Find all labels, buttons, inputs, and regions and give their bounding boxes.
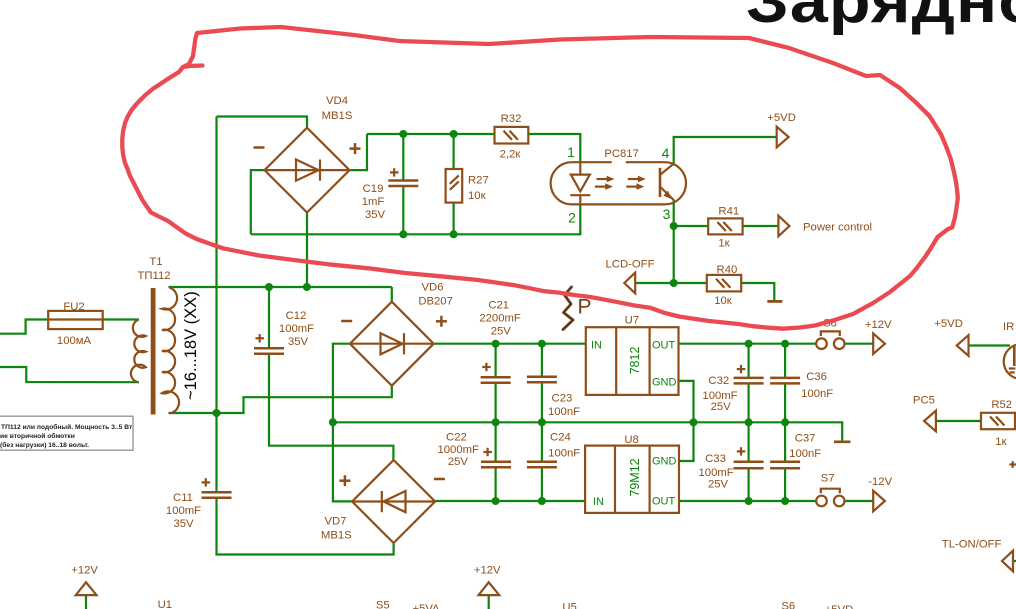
red hand-drawn ellipse annotation (122, 27, 958, 329)
wire: C21 top lead (495, 344, 497, 377)
port +5VD (top, output) (767, 112, 796, 147)
node: R27 top (450, 130, 458, 138)
wire: R40 to ground (741, 283, 774, 300)
wire: VD6 plus to U7 IN rail (434, 343, 586, 345)
svg-text:35V: 35V (288, 336, 309, 348)
wire: mains upper input to FU2 (0, 320, 49, 334)
port TL-ON/OFF (input, right edge) (942, 539, 1013, 572)
wire: GND rail (333, 422, 842, 440)
svg-text:ние вторичной обмотки: ние вторичной обмотки (0, 432, 75, 440)
wire: secondary top rail to VD6 top (169, 286, 392, 288)
svg-text:~16...18V (XX): ~16...18V (XX) (182, 291, 200, 400)
capacitor C23 (527, 377, 580, 418)
wire: VD4 minus corner to bottom rail (251, 170, 266, 234)
port Power control (output) (778, 216, 872, 237)
switch S7 (816, 473, 844, 507)
svg-text:IN: IN (593, 496, 604, 508)
port LCD-OFF (input, left) (606, 259, 655, 294)
bridge rectifier VD4 (254, 95, 361, 213)
wire: top rail y=134 to R32 (367, 133, 495, 135)
pencil mark P (hand annotation) (563, 287, 592, 330)
T1 secondary winding (162, 287, 179, 413)
resistor R41 (708, 206, 742, 250)
node: C37 top on GND rail (781, 418, 789, 426)
svg-text:C22: C22 (446, 431, 467, 443)
node: C19 top (399, 130, 407, 138)
regulator U8 79M12 (585, 434, 679, 513)
port +12V (bottom middle, up arrow) (474, 565, 501, 596)
wire: R32 to opto pin1 (528, 134, 580, 162)
svg-text:C21: C21 (488, 300, 509, 312)
svg-text:DB207: DB207 (418, 296, 453, 308)
svg-text:S5: S5 (376, 599, 390, 609)
wire: pin3 to R41 (674, 225, 709, 227)
capacitor C32 (702, 365, 763, 413)
wire: C11 top lead (215, 413, 217, 492)
wire: C36 leads (784, 344, 786, 378)
svg-text:79M12: 79M12 (628, 458, 642, 496)
svg-text:C37: C37 (795, 433, 816, 445)
port +12V (output) (865, 319, 892, 354)
capacitor C11 (166, 478, 232, 530)
svg-text:IN: IN (591, 339, 602, 351)
svg-text:4: 4 (662, 145, 670, 161)
bridge rectifier VD7 (321, 460, 445, 543)
wire: FU2 to transformer primary top (103, 318, 139, 320)
VD7 polarity marks (339, 479, 350, 482)
plus sign fragment at right edge (1010, 461, 1016, 468)
port -12V (output) (868, 476, 892, 511)
svg-text:C32: C32 (708, 375, 729, 387)
svg-text:100мА: 100мА (57, 335, 92, 347)
svg-text:1: 1 (567, 144, 575, 160)
svg-text:OUT: OUT (652, 496, 676, 508)
svg-text:+5VD: +5VD (767, 112, 796, 124)
svg-text:100mF: 100mF (279, 323, 314, 335)
node: opto pin3 / R41 (670, 222, 678, 230)
wire: opto bottom rail y=234.3 (251, 204, 581, 234)
capacitor C37 (770, 433, 821, 469)
wire: S8 to +12V port (844, 343, 873, 345)
VD4 polarity marks (254, 146, 265, 149)
node: C21 bottom (492, 418, 500, 426)
svg-text:1mF: 1mF (362, 196, 385, 208)
wire: VD4 AC vertical x=216.5 (215, 117, 217, 414)
svg-text:C19: C19 (363, 183, 384, 195)
wire: C24 top lead (541, 422, 543, 461)
wire: opto pin3 down (673, 200, 675, 284)
svg-text:VD4: VD4 (326, 95, 348, 107)
capacitor C24 (527, 431, 580, 467)
svg-text:+12V: +12V (474, 565, 501, 577)
svg-text:R32: R32 (501, 113, 522, 125)
svg-text:MB1S: MB1S (322, 110, 353, 122)
wire: +12V bottom-mid stub (488, 595, 490, 609)
wire: C11 bottom to VD7 bottom corner (217, 498, 394, 555)
svg-text:R27: R27 (468, 175, 489, 187)
node: C19 bottom (399, 230, 407, 238)
ground symbol near R40 (767, 300, 782, 303)
node: secondary bottom junction (213, 409, 221, 417)
svg-text:Power control: Power control (803, 222, 872, 234)
svg-text:LCD-OFF: LCD-OFF (606, 259, 655, 271)
wire: C12 top lead (268, 287, 270, 348)
regulator U7 7812 (586, 315, 679, 395)
svg-text:35V: 35V (173, 518, 194, 530)
resistor R52 (981, 399, 1015, 448)
wire: VD7 minus to U8 IN rail (435, 500, 585, 502)
svg-text:FU2: FU2 (63, 301, 84, 313)
svg-text:U1: U1 (158, 599, 172, 609)
wire: U7 GND lead (679, 381, 694, 422)
node: C37 bottom (781, 497, 789, 505)
svg-text:PC5: PC5 (913, 394, 935, 406)
wire: S7 to -12V port (844, 500, 873, 502)
node: C12/rail junction (265, 283, 273, 291)
svg-text:100mF: 100mF (702, 390, 737, 402)
svg-text:VD7: VD7 (325, 516, 347, 528)
transformer T1 (131, 256, 200, 415)
svg-text:IR: IR (1003, 321, 1014, 333)
svg-text:OUT: OUT (652, 339, 676, 351)
svg-text:ТП112: ТП112 (137, 270, 170, 282)
svg-text:S7: S7 (821, 473, 835, 485)
capacitor C22 (437, 431, 511, 468)
wire: mains lower input to primary bottom (0, 367, 139, 382)
node: C23 top (538, 340, 546, 348)
node: C22 bottom (492, 497, 500, 505)
resistor R27 (446, 169, 489, 203)
capacitor C33 (699, 447, 764, 491)
svg-text:C12: C12 (286, 310, 307, 322)
svg-text:C11: C11 (173, 492, 193, 504)
svg-text:GND: GND (652, 377, 677, 389)
wire: C22 bottom lead (495, 468, 497, 501)
svg-text:ТП112 или подобный. Мощность 3: ТП112 или подобный. Мощность 3..5 Вт (1, 423, 133, 431)
svg-text:100nF: 100nF (548, 406, 580, 418)
svg-text:U7: U7 (625, 315, 639, 327)
wire: VD6 minus corner down to VD7 plus corner (333, 344, 352, 502)
svg-text:25V: 25V (711, 401, 732, 413)
svg-text:MB1S: MB1S (321, 530, 352, 542)
wire: C37 leads (784, 422, 786, 461)
switch S8 (816, 317, 844, 349)
port +12V (bottom left, up arrow) (71, 564, 98, 595)
resistor R40 (707, 264, 741, 307)
wire: R52 right stub (1015, 420, 1016, 422)
svg-text:+12V: +12V (71, 564, 98, 576)
svg-text:U5: U5 (562, 602, 576, 609)
title: Зарядное (cut off at top) (746, 0, 1016, 35)
wire: C12 bottom to VD7 top corner (269, 354, 393, 460)
svg-text:GND: GND (652, 455, 677, 467)
node: C36 top (781, 340, 789, 348)
node: VD6 minus on GND rail (329, 418, 337, 426)
svg-text:C23: C23 (552, 392, 573, 404)
wire: opto pin4 to +5VD (674, 137, 777, 164)
ground symbol on GND rail (834, 440, 851, 443)
optocoupler U PC817 (551, 144, 686, 226)
svg-text:PC817: PC817 (604, 148, 639, 160)
svg-text:7812: 7812 (628, 347, 642, 375)
PC817 LED (579, 162, 581, 174)
node: C33 top on GND rail (745, 418, 753, 426)
node: C32 top (745, 340, 753, 348)
svg-text:+12V: +12V (865, 319, 892, 331)
node: pin3 / R40 (670, 279, 678, 287)
wire: C24 bottom lead (541, 468, 543, 501)
wire: LCD-OFF port to R40 (635, 282, 707, 284)
svg-text:25V: 25V (491, 326, 512, 338)
svg-text:VD6: VD6 (422, 282, 444, 294)
svg-text:-12V: -12V (868, 476, 892, 488)
svg-text:2200mF: 2200mF (479, 313, 521, 325)
svg-text:+5VD: +5VD (934, 318, 963, 330)
svg-text:3: 3 (663, 206, 671, 222)
svg-text:S6: S6 (781, 601, 795, 609)
wire: TL-ON/OFF stub (1013, 560, 1016, 562)
wire: C19 top lead (402, 134, 404, 180)
capacitor C19 (362, 168, 419, 221)
svg-text:100nF: 100nF (548, 448, 580, 460)
svg-text:C36: C36 (806, 371, 827, 383)
T1 primary winding (131, 320, 146, 383)
wire: secondary bottom to VD6 bottom corner (169, 384, 392, 413)
svg-text:100nF: 100nF (801, 388, 833, 400)
svg-text:TL-ON/OFF: TL-ON/OFF (942, 539, 1002, 551)
svg-text:35V: 35V (365, 209, 386, 221)
bottom edge labels U1 S5 +5VA U5 S6 +5VD (158, 599, 854, 609)
port PC5 (input, left) (913, 394, 936, 431)
wire: R27 top lead (453, 134, 455, 169)
svg-text:25V: 25V (448, 456, 469, 468)
PC817 light arrows (597, 178, 608, 180)
wire: +12V bottom-left stub (85, 595, 87, 609)
wire: C23 top lead (541, 344, 543, 376)
red pen hook (183, 66, 202, 68)
svg-text:R52: R52 (991, 399, 1012, 411)
VD6 polarity marks (341, 320, 352, 323)
svg-text:Зарядное: Зарядное (746, 0, 1016, 35)
wire: U8 OUT -12V rail (679, 500, 816, 502)
wire: C23 bottom lead (541, 383, 543, 422)
fuse FU2 (48, 301, 102, 347)
bridge rectifier VD6 (341, 282, 453, 386)
svg-text:C24: C24 (550, 431, 571, 443)
svg-text:100nF: 100nF (789, 448, 821, 460)
svg-text:R40: R40 (717, 264, 738, 276)
capacitor C21 (479, 300, 521, 383)
svg-text:10к: 10к (468, 190, 486, 202)
svg-text:10к: 10к (714, 295, 732, 307)
port +5VD (right section, input) (934, 318, 968, 356)
svg-text:2: 2 (568, 210, 576, 226)
wire: C19 bottom lead (402, 186, 404, 234)
svg-text:+5VD: +5VD (825, 604, 854, 609)
capacitor C36 (770, 371, 833, 400)
GROUP: junction dots (213, 130, 790, 505)
svg-text:T1: T1 (149, 256, 162, 268)
wire: R27 bottom lead (453, 203, 455, 235)
node: C23 bottom (538, 418, 546, 426)
svg-text:100mF: 100mF (166, 505, 201, 517)
svg-text:1000mF: 1000mF (437, 444, 479, 456)
wire: VD4 bottom AC drop (306, 212, 308, 287)
wire: C21 bottom lead (495, 383, 497, 423)
svg-text:1к: 1к (718, 238, 729, 250)
T1 core (151, 288, 156, 415)
node: C33 bottom (745, 497, 753, 505)
wire: C33 leads (747, 422, 749, 461)
capacitor C12 (254, 310, 314, 354)
wire: VD4 top corner feed (217, 117, 308, 128)
node: R27 bottom (450, 230, 458, 238)
transistor IR (right edge, clipped) (1003, 321, 1016, 379)
svg-text:100mF: 100mF (699, 467, 734, 479)
node: C24 bottom (538, 497, 546, 505)
PC817 body outline (551, 162, 686, 204)
node: VD4 AC/rail junction (303, 283, 311, 291)
svg-text:C33: C33 (705, 453, 726, 465)
wire: C32 leads (747, 344, 749, 378)
wire: U8 GND lead (679, 422, 694, 461)
svg-text:2,2к: 2,2к (500, 149, 521, 161)
wire: R41 to Power control port (743, 225, 779, 227)
svg-text:+5VA: +5VA (412, 603, 440, 609)
wire: VD4 plus corner to top rail (350, 134, 367, 170)
resistor R32 (495, 113, 529, 161)
svg-text:R41: R41 (718, 206, 739, 218)
wire: C22 top lead (495, 422, 497, 461)
wire: VD6 top corner (391, 287, 393, 302)
svg-text:(без нагрузки) 16..18 вольт.: (без нагрузки) 16..18 вольт. (0, 441, 89, 449)
svg-text:25V: 25V (708, 479, 729, 491)
wire: +5VD right port to transistor (969, 344, 1011, 346)
wire: U7 OUT +12V rail (679, 343, 817, 345)
svg-text:U8: U8 (624, 434, 638, 446)
annotation note box (0, 416, 133, 450)
PC817 phototransistor (659, 168, 662, 197)
svg-text:1к: 1к (995, 436, 1006, 448)
wire: PC5 port to R52 (936, 420, 981, 422)
node: regulators GND (690, 418, 698, 426)
node: C21 top (492, 340, 500, 348)
